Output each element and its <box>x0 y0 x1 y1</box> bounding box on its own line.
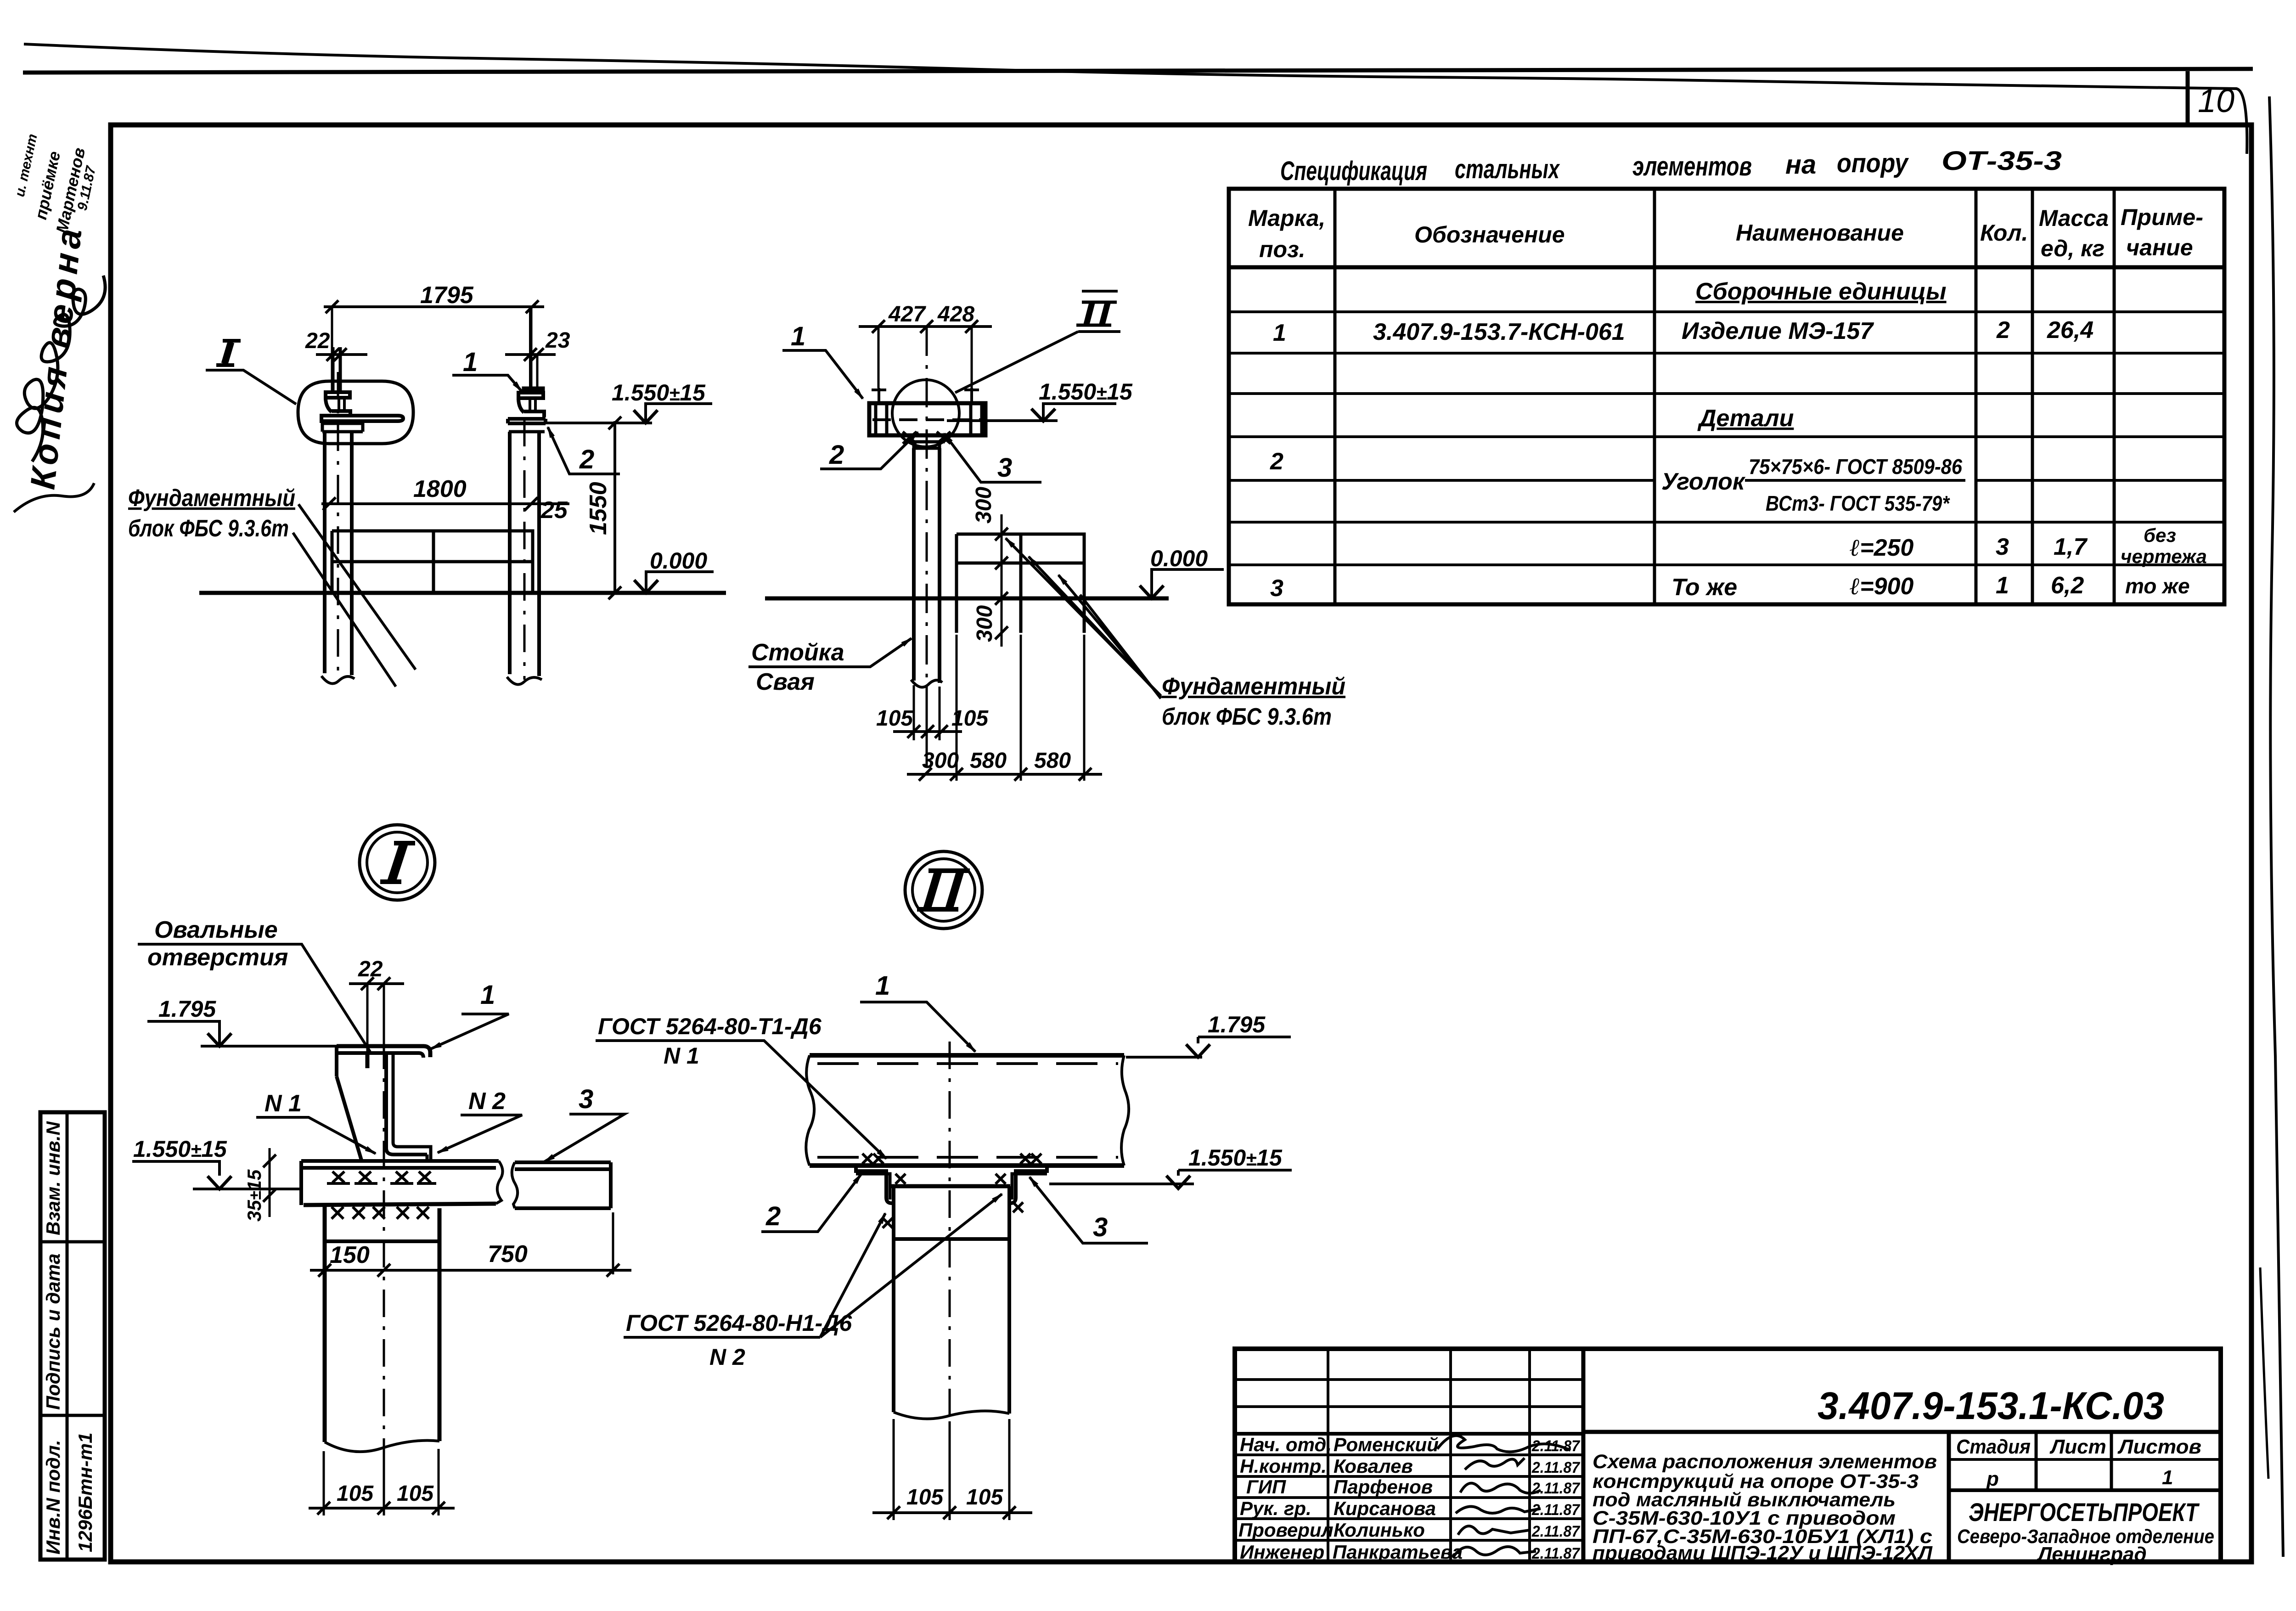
svg-text:Обозначение: Обозначение <box>1414 222 1565 248</box>
dimension 35±15 <box>243 1148 276 1222</box>
svg-text:1: 1 <box>480 980 495 1010</box>
svg-text:N 2: N 2 <box>709 1344 745 1370</box>
svg-text:1296Бтн-т1: 1296Бтн-т1 <box>74 1432 96 1552</box>
svg-text:блок ФБС 9.3.6т: блок ФБС 9.3.6т <box>128 515 289 542</box>
svg-text:1.795: 1.795 <box>1208 1012 1266 1037</box>
svg-text:Стадия: Стадия <box>1956 1436 2031 1458</box>
foundation blocks FBS between piles <box>332 531 533 593</box>
crossarm side view (item 1) <box>806 1055 1129 1166</box>
svg-text:3.407.9-153.7-КСН-061: 3.407.9-153.7-КСН-061 <box>1373 319 1625 345</box>
svg-text:2: 2 <box>1996 317 2010 344</box>
svg-text:Подпись и дата: Подпись и дата <box>42 1254 64 1410</box>
svg-text:без: без <box>2144 524 2176 546</box>
svg-text:1: 1 <box>2162 1466 2173 1489</box>
callout label II with leader <box>955 291 1120 393</box>
label 3 (detail II) <box>1030 1177 1148 1243</box>
lower weld seam marks <box>332 1207 429 1219</box>
level mark 1.550±15 (detail II) <box>1049 1145 1292 1189</box>
title block grid <box>1235 1349 2221 1562</box>
svg-text:1.550±15: 1.550±15 <box>133 1136 227 1162</box>
svg-text:3: 3 <box>579 1084 593 1114</box>
pile below detail I <box>325 1205 439 1452</box>
svg-text:1: 1 <box>1996 572 2009 599</box>
svg-text:3: 3 <box>997 453 1012 483</box>
base plate (top strip with break) <box>301 1161 503 1205</box>
svg-text:приводами ШПЭ-12У и ШПЭ-12ХЛ: приводами ШПЭ-12У и ШПЭ-12ХЛ <box>1593 1542 1933 1564</box>
centre line detail II <box>949 1042 951 1515</box>
svg-text:стальных: стальных <box>1455 154 1560 184</box>
svg-text:1: 1 <box>1273 320 1286 346</box>
weld label GOST 5264-80-T1-D6 N1 <box>596 1014 886 1159</box>
svg-text:580: 580 <box>970 749 1007 773</box>
anchor bolt stubs left pile <box>333 347 340 392</box>
svg-text:поз.: поз. <box>1259 237 1306 262</box>
svg-text:Стойка: Стойка <box>751 639 844 666</box>
label N1 <box>256 1090 376 1154</box>
label: Овальные отверстия <box>138 917 370 1052</box>
dimension 105 105 (pile) <box>876 706 989 738</box>
extension lines to bottom dims <box>914 685 940 740</box>
svg-text:105: 105 <box>951 706 989 731</box>
svg-text:Нач. отд.: Нач. отд. <box>1240 1434 1332 1455</box>
svg-text:блок ФБС 9.3.6т: блок ФБС 9.3.6т <box>1162 704 1332 730</box>
svg-text:1795: 1795 <box>420 282 474 309</box>
dimension 300 580 580 <box>907 749 1102 781</box>
svg-text:3.407.9-153.1-КС.03: 3.407.9-153.1-КС.03 <box>1818 1384 2164 1427</box>
level mark 0.000 <box>634 548 714 593</box>
detail circle II <box>905 851 982 929</box>
svg-text:Колинько: Колинько <box>1334 1519 1425 1541</box>
svg-text:300: 300 <box>972 487 996 524</box>
drawing description <box>1593 1451 1937 1564</box>
right pile shaft <box>510 432 539 676</box>
svg-text:чертежа: чертежа <box>2121 546 2207 567</box>
label 2 (cap plate) <box>548 427 620 474</box>
svg-text:2.11.87: 2.11.87 <box>1531 1437 1581 1455</box>
svg-text:2: 2 <box>579 445 594 474</box>
dimension 150 / 750 <box>310 1212 631 1277</box>
level mark 0.000 <box>1140 546 1224 598</box>
svg-text:Марка,: Марка, <box>1248 205 1325 231</box>
left angle hook (item 2) <box>856 1166 892 1203</box>
dimension 23 (right anchor bolts) <box>505 328 570 392</box>
label 3 (right cap angle) <box>944 434 1041 483</box>
dimension 105 105 (detail II) <box>872 1419 1032 1520</box>
svg-text:ГОСТ 5264-80-Н1-Д6: ГОСТ 5264-80-Н1-Д6 <box>626 1310 852 1336</box>
header texts <box>1248 204 2203 262</box>
callout label I (detail reference) <box>206 341 296 404</box>
svg-text:2.11.87: 2.11.87 <box>1531 1459 1581 1476</box>
channel item 1 (section) <box>337 1046 431 1160</box>
svg-text:Парфенов: Парфенов <box>1334 1476 1433 1498</box>
svg-text:Свая: Свая <box>756 669 815 695</box>
level mark 1.550±15 <box>947 379 1133 421</box>
svg-text:750: 750 <box>488 1241 528 1267</box>
page torn right edge <box>2269 96 2283 1557</box>
label 2 (left cap angle) <box>820 432 918 470</box>
dimension 1795 <box>324 282 544 390</box>
dimensions 427 / 428 <box>859 302 992 388</box>
svg-text:Панкратьева: Панкратьева <box>1333 1541 1463 1563</box>
svg-text:ℓ=900: ℓ=900 <box>1850 573 1913 600</box>
dimension 1800 with 25 offset <box>321 476 569 524</box>
svg-text:р: р <box>1986 1468 1999 1490</box>
page torn top edge <box>24 44 2247 154</box>
svg-text:на: на <box>1785 150 1816 180</box>
svg-text:2.11.87: 2.11.87 <box>1531 1480 1581 1497</box>
svg-text:75×75×6- ГОСТ 8509-86: 75×75×6- ГОСТ 8509-86 <box>1749 455 1962 479</box>
svg-text:2.11.87: 2.11.87 <box>1531 1545 1581 1562</box>
svg-text:35±15: 35±15 <box>243 1169 265 1222</box>
cap plate on right pile <box>508 419 546 423</box>
signature rows: roles <box>1238 1434 1334 1563</box>
dimension 105 105 (detail I bottom) <box>309 1449 455 1515</box>
label 1 (channel) <box>431 980 509 1049</box>
svg-text:Фундаментный: Фундаментный <box>128 485 295 512</box>
svg-text:26,4: 26,4 <box>2047 317 2093 344</box>
svg-text:Ленинград: Ленинград <box>2037 1543 2147 1566</box>
label N2 <box>438 1088 522 1153</box>
signature dates <box>1531 1437 1581 1562</box>
label 1 (detail II) <box>860 971 975 1052</box>
svg-text:1.550±15: 1.550±15 <box>1039 379 1133 405</box>
vertical dimensions 300 / 300 at block <box>972 487 1008 647</box>
svg-text:1: 1 <box>791 321 805 351</box>
signatures (handwritten squiggles) <box>1437 1436 1570 1557</box>
svg-text:ГИП: ГИП <box>1246 1476 1286 1498</box>
svg-text:300: 300 <box>922 749 959 773</box>
svg-text:22: 22 <box>358 957 383 981</box>
svg-text:Кол.: Кол. <box>1980 220 2028 246</box>
svg-text:Масса: Масса <box>2039 205 2109 231</box>
label: Стойка Свая <box>748 638 912 695</box>
handwritten annotation: к проекту Мартенов 9.11.87 (rotated) <box>12 133 99 235</box>
svg-text:1.550±15: 1.550±15 <box>612 380 706 406</box>
svg-text:105: 105 <box>906 1485 944 1510</box>
bracket item 1 on left pile (channel stub) <box>326 392 350 417</box>
label 1 (right pile bracket) <box>452 347 522 391</box>
pile cap ring right <box>509 423 545 432</box>
page top rule line <box>23 69 2253 73</box>
level mark 1.795 <box>147 996 338 1046</box>
handwritten signature <box>17 276 105 462</box>
sheet number box <box>2186 71 2190 125</box>
stage / sheet cells <box>1956 1436 2201 1490</box>
svg-text:Инженер: Инженер <box>1240 1541 1324 1563</box>
detail circle I <box>360 825 435 900</box>
signature rows: names <box>1333 1434 1463 1563</box>
svg-text:Н.контр.: Н.контр. <box>1240 1455 1327 1477</box>
svg-text:0.000: 0.000 <box>1150 546 1208 571</box>
svg-text:Лист: Лист <box>2049 1436 2106 1458</box>
upper weld seam marks <box>327 1172 436 1183</box>
svg-text:1800: 1800 <box>413 476 467 502</box>
svg-text:2: 2 <box>829 440 844 470</box>
label 1 (crossarm) <box>782 321 863 399</box>
svg-text:N 1: N 1 <box>264 1090 302 1117</box>
svg-text:0.000: 0.000 <box>650 548 707 574</box>
row: item 1 <box>1273 317 2093 346</box>
svg-text:25: 25 <box>540 497 568 524</box>
svg-text:отверстия: отверстия <box>147 944 288 971</box>
svg-text:ед, кг: ед, кг <box>2041 236 2105 261</box>
svg-text:22: 22 <box>305 329 330 353</box>
svg-text:Спецификация: Спецификация <box>1280 156 1427 186</box>
label: Фундаментный блок ФБС 9.3.6т <box>128 485 416 687</box>
svg-text:1,7: 1,7 <box>2054 534 2088 560</box>
label: Фундаментный блок ФБС 9.3.6т (view B) <box>1006 538 1345 730</box>
left vertical stamp table <box>40 1112 105 1560</box>
svg-text:Взам. инв.N: Взам. инв.N <box>42 1121 64 1235</box>
left pile shaft <box>325 432 352 675</box>
svg-text:элементов: элементов <box>1632 152 1752 181</box>
svg-text:Проверил: Проверил <box>1238 1519 1334 1541</box>
svg-text:3: 3 <box>1270 575 1283 602</box>
svg-text:Ковалев: Ковалев <box>1334 1455 1413 1477</box>
centre line of detail I <box>383 992 385 1515</box>
svg-text:Уголок: Уголок <box>1661 468 1746 495</box>
svg-text:105: 105 <box>397 1481 434 1506</box>
bracket item 1 on right pile <box>518 393 544 417</box>
svg-text:1.550±15: 1.550±15 <box>1188 1145 1283 1171</box>
svg-text:N 2: N 2 <box>468 1088 506 1115</box>
detail circle on pile head <box>892 380 959 447</box>
vertical dimension 1550 <box>585 417 621 599</box>
crossarm (item 1) <box>869 403 985 435</box>
svg-text:6,2: 6,2 <box>2051 572 2084 599</box>
svg-text:2.11.87: 2.11.87 <box>1531 1523 1581 1540</box>
svg-text:3: 3 <box>1996 534 2009 560</box>
svg-text:2.11.87: 2.11.87 <box>1531 1501 1581 1519</box>
ground line <box>199 591 726 595</box>
crossarm bolts <box>872 388 886 403</box>
svg-text:23: 23 <box>545 328 570 353</box>
svg-text:2: 2 <box>1270 448 1283 475</box>
svg-text:1: 1 <box>875 971 890 1001</box>
pile cap ring left <box>322 421 363 432</box>
svg-text:105: 105 <box>876 706 913 731</box>
anchor bolt stubs right pile <box>529 307 532 393</box>
label 3 (plate) <box>544 1084 625 1162</box>
svg-text:1550: 1550 <box>585 482 612 535</box>
svg-text:Сборочные единицы: Сборочные единицы <box>1695 278 1947 305</box>
svg-text:то же: то же <box>2125 574 2190 598</box>
svg-text:ЭНЕРГОСЕТЬПРОЕКТ: ЭНЕРГОСЕТЬПРОЕКТ <box>1969 1498 2200 1527</box>
svg-text:1: 1 <box>463 347 478 377</box>
svg-text:То же: То же <box>1671 574 1737 601</box>
pile cap plates under crossarm <box>903 432 951 448</box>
table grid <box>1229 189 2224 604</box>
svg-text:ГОСТ 5264-80-Т1-Д6: ГОСТ 5264-80-Т1-Д6 <box>598 1014 822 1039</box>
svg-text:ℓ=250: ℓ=250 <box>1850 535 1913 561</box>
svg-text:ОТ-35-3: ОТ-35-3 <box>1941 146 2062 176</box>
cap plate on left pile (long flange) <box>321 416 403 421</box>
right angle hook (item 3) <box>1010 1166 1047 1203</box>
svg-text:Роменский: Роменский <box>1334 1434 1439 1455</box>
svg-text:Инв.N подл.: Инв.N подл. <box>42 1440 64 1555</box>
svg-text:3: 3 <box>1093 1212 1108 1242</box>
svg-text:Рук. гр.: Рук. гр. <box>1240 1498 1311 1519</box>
svg-text:427: 427 <box>888 302 926 327</box>
svg-text:10: 10 <box>2198 83 2234 119</box>
level mark 1.550±15 <box>546 380 712 423</box>
svg-text:Листов: Листов <box>2117 1436 2201 1458</box>
pile shaft (stойка) <box>914 448 940 683</box>
svg-text:105: 105 <box>337 1481 374 1506</box>
svg-text:Схема расположения элементов: Схема расположения элементов <box>1593 1451 1937 1473</box>
row: item 2 with fraction <box>1270 448 1965 515</box>
svg-text:Наименование: Наименование <box>1736 220 1904 246</box>
svg-text:Фундаментный: Фундаментный <box>1162 673 1345 700</box>
dimension 22 (oval hole) <box>349 957 404 1054</box>
weld marks detail II <box>862 1154 1041 1228</box>
svg-text:Изделие МЭ-157: Изделие МЭ-157 <box>1682 318 1874 344</box>
level mark 1.795 (detail II) <box>1126 1012 1291 1057</box>
svg-text:чание: чание <box>2126 235 2193 260</box>
detail oval (stadium) around left pile head <box>298 381 413 444</box>
level mark 1.550±15 (detail I) <box>132 1136 303 1189</box>
svg-text:300: 300 <box>973 605 997 642</box>
svg-text:ВСт3- ГОСТ 535-79*: ВСт3- ГОСТ 535-79* <box>1766 491 1950 515</box>
svg-text:Детали: Детали <box>1697 405 1794 432</box>
svg-text:Овальные: Овальные <box>154 917 278 943</box>
pile axis center line <box>926 327 928 776</box>
foundation block (right of pile) <box>957 534 1084 633</box>
label 2 (detail II) <box>761 1174 861 1232</box>
weld label GOST 5264-80-N1-D6 N2 <box>624 1194 1002 1370</box>
row: item 3 <box>1270 572 2190 602</box>
svg-text:N 1: N 1 <box>664 1043 699 1069</box>
pile head detail II <box>891 1186 1010 1419</box>
svg-text:150: 150 <box>330 1242 370 1268</box>
dimension 22 (left anchor bolts) <box>305 329 367 392</box>
svg-text:Приме-: Приме- <box>2121 204 2203 230</box>
ground line <box>765 597 1169 601</box>
svg-text:2: 2 <box>765 1201 781 1231</box>
svg-text:Кирсанова: Кирсанова <box>1334 1498 1436 1519</box>
svg-text:и. технт: и. технт <box>12 133 40 198</box>
svg-text:105: 105 <box>966 1485 1003 1510</box>
svg-text:428: 428 <box>937 302 974 327</box>
svg-text:1.795: 1.795 <box>158 996 216 1022</box>
svg-text:опору: опору <box>1837 148 1909 178</box>
plate item 3 (right piece) <box>512 1162 611 1208</box>
svg-text:580: 580 <box>1034 749 1071 773</box>
row: l=250 <box>1850 524 2207 567</box>
